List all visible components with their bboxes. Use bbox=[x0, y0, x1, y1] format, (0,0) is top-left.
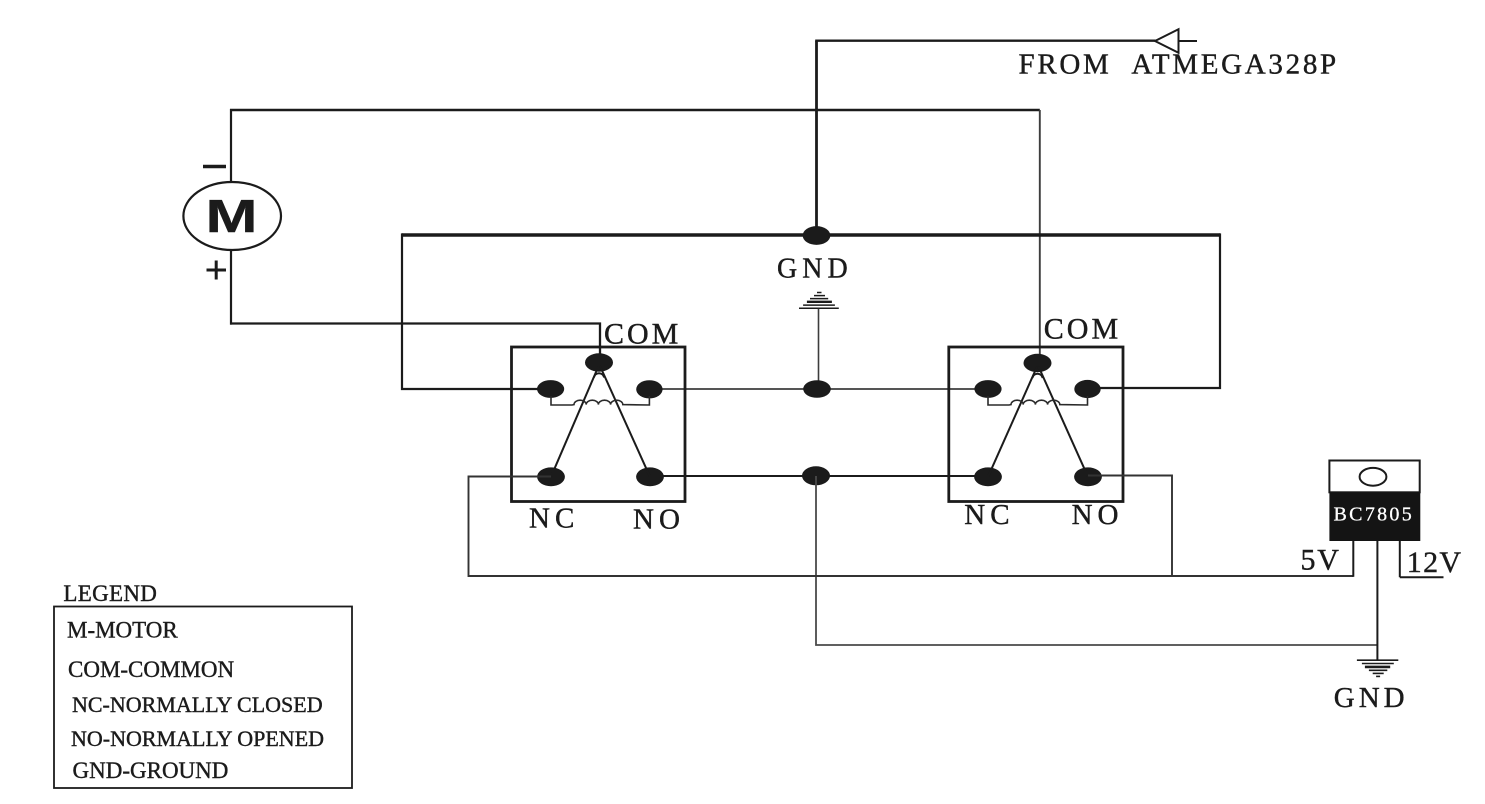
wire GND bus left drop to left relay coil bbox=[402, 233, 552, 389]
regulator U1 pin 3 output bbox=[1352, 541, 1354, 577]
relay K2 pin coil left bbox=[974, 380, 1001, 398]
relay K2 pin NC bbox=[974, 467, 1002, 486]
relay K1 pin coil left bbox=[537, 380, 564, 398]
regulator U1 pin 1 input bbox=[1399, 541, 1401, 577]
svg-text:M: M bbox=[206, 190, 258, 242]
svg-text:GND: GND bbox=[1334, 682, 1409, 714]
svg-text:NO: NO bbox=[1072, 499, 1124, 531]
relay K1 box bbox=[512, 347, 686, 502]
wire motor positive lead bbox=[230, 250, 232, 325]
wire junction to regulator ground bbox=[816, 476, 1377, 645]
signal input arrow bbox=[1155, 29, 1179, 53]
wire coil interconnect rail bbox=[649, 388, 989, 390]
svg-text:5V: 5V bbox=[1301, 544, 1341, 577]
wire motor negative lead bbox=[230, 109, 232, 184]
svg-text:GND: GND bbox=[777, 254, 853, 285]
svg-text:NO: NO bbox=[633, 504, 685, 536]
legend box bbox=[54, 607, 352, 789]
relay K1 pin NC bbox=[537, 467, 565, 486]
regulator U1 pin 2 ground bbox=[1376, 541, 1378, 660]
svg-text:COM: COM bbox=[604, 318, 681, 351]
ground symbol (earth) at regulator bbox=[1357, 660, 1398, 676]
svg-text:NC: NC bbox=[964, 499, 1014, 531]
junction node switch rail bbox=[802, 466, 830, 485]
wire 12V input stub bbox=[1400, 576, 1444, 578]
wire NC(K1) to 5V rail bbox=[469, 477, 1354, 577]
wire NO(K1) to NC(K2) rail bbox=[650, 475, 988, 477]
relay K1 pin coil right bbox=[636, 380, 662, 398]
relay K1 pin COM bbox=[585, 353, 613, 371]
motor plus terminal label bbox=[207, 261, 227, 280]
svg-text:COM: COM bbox=[1044, 313, 1121, 346]
wire ground symbol to coil junction bbox=[818, 309, 820, 382]
motor minus terminal label bbox=[203, 165, 226, 168]
wire motor positive rail to left relay COM bbox=[230, 324, 600, 357]
svg-text:NC-NORMALLY CLOSED: NC-NORMALLY CLOSED bbox=[72, 692, 323, 717]
motor M1 bbox=[183, 182, 281, 250]
svg-text:12V: 12V bbox=[1407, 546, 1463, 579]
wire from ATMEGA328P vertical bbox=[815, 41, 818, 235]
wire top rail (motor negative to right relay COM) horizontal bbox=[230, 109, 1040, 111]
svg-text:NO-NORMALLY OPENED: NO-NORMALLY OPENED bbox=[71, 726, 324, 751]
GND bus (thick horizontal) bbox=[402, 233, 1220, 236]
svg-text:LEGEND: LEGEND bbox=[63, 581, 157, 606]
svg-text:FROM ATMEGA328P: FROM ATMEGA328P bbox=[1019, 49, 1339, 81]
svg-text:COM-COMMON: COM-COMMON bbox=[68, 657, 235, 682]
wire NO(K2) to 5V rail bbox=[1088, 476, 1172, 577]
wire from ATMEGA328P horizontal bbox=[815, 40, 1155, 42]
svg-text:M-MOTOR: M-MOTOR bbox=[67, 617, 178, 642]
relay K2 armature contacts bbox=[988, 367, 1088, 477]
relay K2 pin COM bbox=[1024, 354, 1052, 372]
ground symbol (signal ground hatch) bbox=[799, 293, 839, 309]
voltage regulator U1 BC7805 bbox=[1329, 461, 1420, 542]
wire GND bus right drop to right relay coil bbox=[1086, 233, 1220, 388]
relay K2 coil bbox=[988, 396, 1088, 405]
wire arrow tail bbox=[1179, 40, 1198, 42]
wire top rail vertical drop to right relay COM bbox=[1039, 110, 1041, 356]
junction node GND bbox=[803, 226, 831, 245]
svg-text:GND-GROUND: GND-GROUND bbox=[73, 758, 229, 783]
relay K1 armature contacts bbox=[551, 366, 650, 477]
svg-text:BC7805: BC7805 bbox=[1334, 504, 1414, 526]
relay K2 pin coil right bbox=[1074, 380, 1100, 398]
relay K1 coil bbox=[551, 396, 649, 405]
svg-text:NC: NC bbox=[529, 503, 579, 535]
relay K2 pin NO bbox=[1074, 467, 1102, 486]
relay K2 box bbox=[949, 347, 1123, 502]
relay K1 pin NO bbox=[636, 467, 664, 486]
junction node coil rail bbox=[803, 380, 831, 398]
